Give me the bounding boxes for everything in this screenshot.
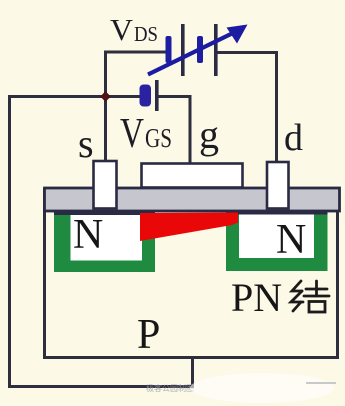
glyph 结 drawn manually xyxy=(291,281,329,312)
battery VDS plate 4 (thin positive) xyxy=(214,24,218,76)
battery VGS plate 1 (thick negative) xyxy=(140,85,152,107)
right N region top border xyxy=(226,212,328,215)
svg-text:V: V xyxy=(120,111,144,157)
right N region green frame xyxy=(226,212,328,271)
svg-text:GS: GS xyxy=(145,123,172,153)
left N region green frame xyxy=(54,213,155,273)
oxide layer (grey bar) xyxy=(45,188,340,211)
battery VDS plate 3 (thick negative) xyxy=(197,36,203,63)
wire node to source xyxy=(104,97,107,163)
channel / depletion region (red wedge) xyxy=(140,213,238,242)
source contact block xyxy=(94,161,117,209)
wire VDS right branch to drain xyxy=(217,53,277,163)
svg-text:N: N xyxy=(73,212,103,258)
left N region top border xyxy=(54,212,155,215)
wire left outer loop (body connection) xyxy=(10,95,193,387)
wire top horizontal (node row) xyxy=(8,95,140,98)
gate contact block xyxy=(142,164,243,188)
battery VGS plate 2 (thin positive) xyxy=(155,80,159,111)
svg-text:d: d xyxy=(284,117,303,159)
right N region interior xyxy=(239,215,314,259)
battery VDS plate 2 (thin positive) xyxy=(181,24,185,76)
P substrate box xyxy=(45,190,338,358)
left N region interior xyxy=(71,215,143,261)
wire VDS left branch xyxy=(106,52,167,97)
svg-text:PN: PN xyxy=(231,275,282,320)
svg-text:s: s xyxy=(78,121,94,166)
svg-text:极客公园制图: 极客公园制图 xyxy=(146,383,194,393)
svg-text:P: P xyxy=(137,312,160,358)
node A (junction of VDS, VGS, source, body) xyxy=(100,91,111,102)
variable-source arrow across VDS battery xyxy=(148,25,248,75)
svg-text:N: N xyxy=(276,217,306,263)
drain contact block xyxy=(267,162,289,209)
svg-text:DS: DS xyxy=(134,22,158,46)
battery VDS plate 1 (thick negative) xyxy=(166,36,172,63)
svg-text:g: g xyxy=(199,112,219,157)
label PN junction (PN结) xyxy=(231,275,329,320)
svg-text:V: V xyxy=(110,12,134,47)
white blob bottom right xyxy=(190,373,334,403)
wire VGS to gate xyxy=(158,97,190,165)
